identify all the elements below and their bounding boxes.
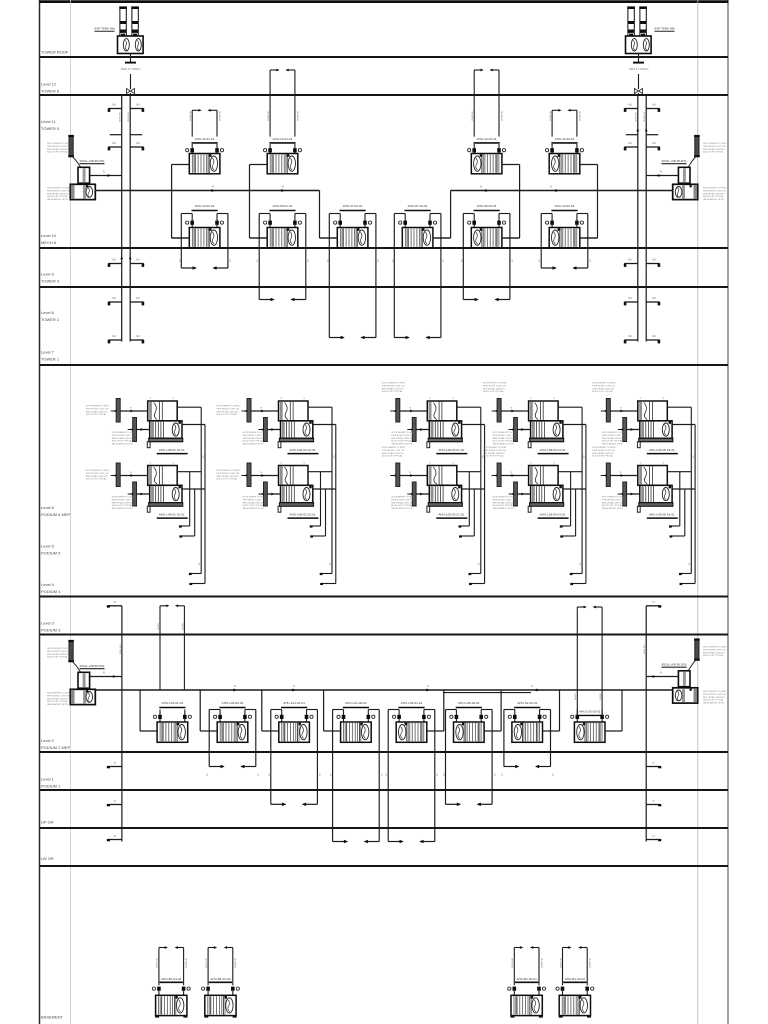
svg-text:N: N (103, 671, 105, 674)
svg-text:AHU-L06-02 01-01: AHU-L06-02 01-01 (290, 448, 316, 452)
svg-text:CHWS 40: CHWS 40 (550, 110, 552, 121)
svg-text:AHU-B1-02-02: AHU-B1-02-02 (565, 977, 586, 981)
svg-text:M-501 FOR TYPICAL: M-501 FOR TYPICAL (243, 440, 264, 443)
main CHW pipe level 10 left (95, 190, 319, 192)
svg-text:PODIUM 1: PODIUM 1 (41, 784, 61, 789)
svg-text:M-501 FOR TYPICAL: M-501 FOR TYPICAL (217, 413, 238, 416)
svg-text:TANK 4 T TANK 4: TANK 4 T TANK 4 (121, 68, 142, 71)
svg-text:N: N (212, 185, 214, 188)
svg-text:M-501 FOR TYPICAL: M-501 FOR TYPICAL (47, 195, 68, 198)
AHU-L05-05 01-01 (592, 447, 695, 518)
AHU-09-01-01 (250, 204, 311, 301)
svg-text:SEE DETAIL DWG NO: SEE DETAIL DWG NO (112, 501, 134, 504)
podium riser left (121, 606, 123, 842)
drawing frame border (39, 0, 41, 1024)
svg-text:SEE DETAIL DWG NO: SEE DETAIL DWG NO (602, 501, 624, 504)
svg-text:TANK 4 T TANK 4: TANK 4 T TANK 4 (629, 68, 650, 71)
AHU-12-01-01 (250, 69, 302, 238)
pump 2 (673, 184, 698, 199)
svg-text:PODIUM 5: PODIUM 5 (41, 551, 61, 556)
svg-text:M-501 FOR TYPICAL: M-501 FOR TYPICAL (112, 504, 133, 507)
svg-text:SEE DETAIL DWG NO: SEE DETAIL DWG NO (112, 437, 134, 440)
svg-text:PIPE WORK CONT ON: PIPE WORK CONT ON (391, 499, 414, 501)
svg-text:M-501 FOR TYPICAL: M-501 FOR TYPICAL (86, 413, 107, 416)
svg-text:PIPE WORK CONT ON: PIPE WORK CONT ON (112, 435, 135, 437)
svg-text:NOTE REFER TO SPEC: NOTE REFER TO SPEC (217, 406, 241, 408)
svg-text:NOTE REFER TO SPEC: NOTE REFER TO SPEC (483, 383, 507, 385)
svg-text:SEE DETAIL DWG NO: SEE DETAIL DWG NO (703, 696, 725, 699)
svg-text:TOWER 1: TOWER 1 (41, 357, 60, 362)
pump 1 (678, 671, 690, 687)
pump 1 (78, 167, 90, 183)
svg-text:PIPE WORK CONT ON: PIPE WORK CONT ON (391, 435, 414, 437)
svg-text:N: N (234, 685, 236, 688)
svg-text:AHU-11-02-01: AHU-11-02-01 (555, 137, 575, 141)
svg-text:M-501 FOR TYPICAL: M-501 FOR TYPICAL (483, 455, 504, 458)
svg-text:CHWS 40: CHWS 40 (157, 957, 159, 968)
AHU-10-01-01 (172, 204, 233, 270)
AHU-09-02-01 (461, 204, 519, 301)
svg-text:Level 2: Level 2 (41, 738, 55, 743)
svg-text:Level 3: Level 3 (41, 621, 55, 626)
AHU-L03-01-01 (140, 690, 191, 742)
level line Level 7 (40, 364, 729, 366)
svg-text:SEE DETAIL DWG NO: SEE DETAIL DWG NO (592, 452, 614, 455)
AHU-L05-03 01-01 (382, 447, 485, 518)
svg-text:Level 7: Level 7 (41, 350, 55, 355)
svg-text:M-501 FOR TYPICAL: M-501 FOR TYPICAL (703, 151, 724, 154)
svg-text:AHU-L06-01 01-01: AHU-L06-01 01-01 (159, 448, 185, 452)
svg-text:PIPE WORK CONT ON: PIPE WORK CONT ON (703, 649, 726, 651)
svg-text:PIPE WORK CONT ON: PIPE WORK CONT ON (592, 450, 615, 452)
cluster risers 1 (179, 407, 205, 585)
svg-text:PIPE WORK CONT ON: PIPE WORK CONT ON (47, 146, 70, 148)
svg-text:PIPE WORK CONT ON: PIPE WORK CONT ON (382, 385, 405, 387)
AHU-07-01-01 (320, 204, 381, 339)
svg-text:SEE DETAIL DWG NO: SEE DETAIL DWG NO (86, 475, 108, 478)
svg-text:CHWR 40: CHWR 40 (590, 957, 592, 968)
podium riser right (645, 606, 647, 842)
AHU-11-01-01 (172, 109, 224, 238)
pump 1 (678, 167, 690, 183)
AHU-L03-02-01 (200, 690, 260, 776)
column gridline B (697, 0, 699, 1024)
svg-text:AHU-L06-03 01-01: AHU-L06-03 01-01 (438, 448, 464, 452)
svg-text:AHU-L05-04 01-01: AHU-L05-04 01-01 (540, 513, 566, 517)
pump 2 (70, 689, 95, 704)
level line TOWER ROOF (40, 56, 729, 58)
AHU-L06-04 01-01 (483, 383, 586, 454)
svg-text:SEE DETAIL DWG NO: SEE DETAIL DWG NO (483, 387, 505, 390)
svg-text:CHWR 40: CHWR 40 (541, 957, 543, 968)
svg-text:AHU-L05-03 01-01: AHU-L05-03 01-01 (438, 513, 464, 517)
svg-text:VALVE ARRGT NOTE: VALVE ARRGT NOTE (602, 507, 624, 510)
cluster risers 4 (560, 407, 586, 585)
svg-text:AHU-L06-05 01-01: AHU-L06-05 01-01 (649, 448, 675, 452)
AHU-B1-01-02 (202, 946, 240, 1017)
svg-text:PIPE WORK CONT ON: PIPE WORK CONT ON (703, 694, 726, 696)
svg-text:AHU-12-02-01: AHU-12-02-01 (477, 137, 497, 141)
svg-text:AHU-12-01-01: AHU-12-01-01 (273, 137, 293, 141)
svg-text:VALVE ARRGT NOTE: VALVE ARRGT NOTE (112, 507, 134, 510)
level line Level 9 (40, 286, 729, 288)
svg-text:M-501 FOR TYPICAL: M-501 FOR TYPICAL (493, 504, 514, 507)
svg-text:AHU-10-02-01: AHU-10-02-01 (555, 204, 575, 208)
svg-text:CHWR 40: CHWR 40 (297, 110, 299, 121)
svg-text:Level 11: Level 11 (41, 119, 57, 124)
AHU-L06-05 01-01 (592, 383, 695, 454)
svg-text:NOTE REFER TO SPEC: NOTE REFER TO SPEC (47, 143, 71, 145)
svg-text:LW GR: LW GR (41, 856, 54, 861)
svg-text:PIPE WORK CONT ON: PIPE WORK CONT ON (217, 408, 240, 410)
svg-text:N: N (114, 835, 116, 838)
svg-text:SEE DETAIL DWG NO: SEE DETAIL DWG NO (391, 437, 413, 440)
svg-text:Level 9: Level 9 (41, 272, 55, 277)
svg-text:AHU-L05-01 01-01: AHU-L05-01 01-01 (159, 513, 185, 517)
svg-text:PIPE WORK CONT ON: PIPE WORK CONT ON (493, 435, 516, 437)
svg-text:CHWR 40: CHWR 40 (186, 957, 188, 968)
svg-text:M-501 FOR TYPICAL: M-501 FOR TYPICAL (243, 504, 264, 507)
feed risers left pair (158, 604, 185, 690)
svg-text:SEE DETAIL DWG NO: SEE DETAIL DWG NO (47, 192, 69, 195)
svg-text:N: N (114, 762, 116, 765)
svg-text:M-501 FOR TYPICAL: M-501 FOR TYPICAL (112, 440, 133, 443)
svg-text:M-501 FOR TYPICAL: M-501 FOR TYPICAL (382, 390, 403, 393)
svg-text:PIPE WORK CONT ON: PIPE WORK CONT ON (602, 499, 625, 501)
svg-text:NOTE REFER TO SPEC: NOTE REFER TO SPEC (493, 497, 517, 499)
svg-text:M-501 FOR TYPICAL: M-501 FOR TYPICAL (47, 656, 68, 659)
svg-text:M-501 FOR TYPICAL: M-501 FOR TYPICAL (47, 151, 68, 154)
svg-text:AHU-B1-01-02: AHU-B1-01-02 (210, 977, 231, 981)
svg-text:M-501 FOR TYPICAL: M-501 FOR TYPICAL (493, 440, 514, 443)
svg-text:VALVE ARRGT NOTE: VALVE ARRGT NOTE (493, 507, 515, 510)
svg-text:N: N (653, 762, 655, 765)
svg-text:AHU-B1-02-01: AHU-B1-02-01 (517, 977, 538, 981)
svg-text:BASEMENT: BASEMENT (41, 1015, 64, 1020)
svg-text:NOTE REFER TO SPEC: NOTE REFER TO SPEC (243, 432, 267, 434)
svg-text:M-501 FOR TYPICAL: M-501 FOR TYPICAL (703, 654, 724, 657)
svg-text:SEE DETAIL DWG NO: SEE DETAIL DWG NO (592, 387, 614, 390)
svg-text:CHWR: CHWR (182, 623, 184, 630)
AHU-L05-04 01-01 (483, 447, 586, 518)
svg-text:Level 1: Level 1 (41, 777, 55, 782)
main CHW pipe level 2 (95, 689, 672, 691)
svg-text:PIPE WORK CONT ON: PIPE WORK CONT ON (86, 473, 109, 475)
svg-text:CHWS 40: CHWS 40 (560, 957, 562, 968)
svg-text:(ROLL-AIR 90 D/S): (ROLL-AIR 90 D/S) (662, 663, 687, 667)
AHU-07-02-01 (392, 204, 450, 339)
svg-text:PIPE WORK CONT ON: PIPE WORK CONT ON (243, 435, 266, 437)
svg-text:CHWR 40: CHWR 40 (579, 110, 581, 121)
valve (638, 74, 640, 89)
svg-text:VALVE ARRGT NOTE: VALVE ARRGT NOTE (47, 198, 69, 201)
svg-text:SEE DETAIL DWG NO: SEE DETAIL DWG NO (703, 192, 725, 195)
AHU-B1-02-02 (556, 946, 594, 1017)
svg-text:Level 12: Level 12 (41, 82, 57, 87)
svg-text:PIPE WORK CONT ON: PIPE WORK CONT ON (86, 408, 109, 410)
svg-text:SEE DETAIL DWG NO: SEE DETAIL DWG NO (382, 452, 404, 455)
svg-text:CHW 100: CHW 100 (644, 644, 646, 654)
svg-text:AHU-07-02-01: AHU-07-02-01 (408, 204, 428, 208)
svg-text:VALVE ARRGT NOTE: VALVE ARRGT NOTE (493, 443, 515, 446)
svg-text:N: N (480, 185, 482, 188)
svg-text:NOTE REFER TO SPEC: NOTE REFER TO SPEC (112, 432, 136, 434)
main CHW pipe level 10 right (451, 190, 673, 192)
svg-text:SEE DETAIL DWG NO: SEE DETAIL DWG NO (602, 437, 624, 440)
svg-text:N: N (653, 800, 655, 803)
svg-text:NOTE REFER TO SPEC: NOTE REFER TO SPEC (602, 497, 626, 499)
air separator (695, 137, 699, 156)
svg-text:CHWS 40: CHWS 40 (206, 957, 208, 968)
svg-text:TOWER ROOF: TOWER ROOF (41, 50, 69, 55)
svg-text:N: N (660, 170, 662, 173)
svg-text:TOWER 6: TOWER 6 (41, 89, 60, 94)
expansion tank assembly (120, 7, 126, 36)
svg-text:PODIUM 4: PODIUM 4 (41, 589, 61, 594)
svg-text:VALVE ARRGT NOTE: VALVE ARRGT NOTE (47, 703, 69, 706)
air separator (69, 642, 73, 661)
AHU-L05-02-01 (444, 690, 502, 806)
level line LW GR (40, 865, 729, 867)
AHU-L06-01 01-01 (86, 398, 205, 454)
svg-text:VALVE ARRGT NOTE: VALVE ARRGT NOTE (243, 443, 265, 446)
svg-text:VALVE ARRGT NOTE: VALVE ARRGT NOTE (391, 507, 413, 510)
svg-text:PIPE WORK CONT ON: PIPE WORK CONT ON (483, 450, 506, 452)
svg-text:CHWS: CHWS (575, 693, 577, 700)
svg-text:N: N (653, 601, 655, 604)
svg-text:AHU-07-01-01: AHU-07-01-01 (343, 204, 363, 208)
column gridline A (70, 0, 72, 1024)
svg-text:AHU-L05-02 01-01: AHU-L05-02 01-01 (290, 513, 316, 517)
svg-text:M-501 FOR TYPICAL: M-501 FOR TYPICAL (602, 504, 623, 507)
svg-text:M-501 FOR TYPICAL: M-501 FOR TYPICAL (703, 195, 724, 198)
svg-text:CHWR 40: CHWR 40 (235, 957, 237, 968)
svg-text:AHU-L03-02-01: AHU-L03-02-01 (222, 701, 244, 705)
valve (130, 74, 132, 89)
svg-text:SEE DETAIL DWG NO: SEE DETAIL DWG NO (243, 437, 265, 440)
svg-text:PIPE WORK CONT ON: PIPE WORK CONT ON (602, 435, 625, 437)
pump 2 (70, 184, 95, 199)
svg-text:NOTE REFER TO SPEC: NOTE REFER TO SPEC (493, 432, 517, 434)
svg-text:N: N (660, 671, 662, 674)
svg-text:N: N (114, 800, 116, 803)
svg-text:Level 4: Level 4 (41, 582, 55, 587)
svg-text:PIPE WORK CONT ON: PIPE WORK CONT ON (703, 190, 726, 192)
svg-text:AHU-L05-02-01: AHU-L05-02-01 (458, 701, 480, 705)
svg-text:NOTE REFER TO SPEC: NOTE REFER TO SPEC (86, 470, 110, 472)
svg-text:M-501 FOR TYPICAL: M-501 FOR TYPICAL (391, 440, 412, 443)
svg-text:N: N (103, 170, 105, 173)
AHU-L06-02 01-01 (217, 398, 336, 454)
svg-text:AHU-09-02-01: AHU-09-02-01 (477, 204, 497, 208)
svg-text:M-501 FOR TYPICAL: M-501 FOR TYPICAL (592, 390, 613, 393)
AHU-10-02-01 (539, 204, 597, 270)
svg-text:NOTE REFER TO SPEC: NOTE REFER TO SPEC (391, 432, 415, 434)
svg-text:M-501 FOR TYPICAL: M-501 FOR TYPICAL (47, 700, 68, 703)
svg-text:SEE DETAIL DWG NO: SEE DETAIL DWG NO (703, 651, 725, 654)
svg-text:AHU-L01-01-01: AHU-L01-01-01 (283, 701, 305, 705)
svg-text:NOTE REFER TO SPEC: NOTE REFER TO SPEC (86, 406, 110, 408)
svg-text:AHU-09-01-01: AHU-09-01-01 (273, 204, 293, 208)
svg-text:VALVE ARRGT NOTE: VALVE ARRGT NOTE (703, 702, 725, 705)
svg-text:NOTE REFER TO SPEC: NOTE REFER TO SPEC (47, 188, 71, 190)
svg-text:Level 6: Level 6 (41, 505, 55, 510)
svg-text:AHU-L03-01-01: AHU-L03-01-01 (162, 701, 184, 705)
svg-text:AHU-01-02-01: AHU-01-02-01 (517, 701, 537, 705)
feed risers right pair (575, 606, 602, 715)
svg-text:M-501 FOR TYPICAL: M-501 FOR TYPICAL (391, 504, 412, 507)
svg-text:NOTE REFER TO SPEC: NOTE REFER TO SPEC (592, 447, 616, 449)
svg-text:SEE DETAIL DWG NO: SEE DETAIL DWG NO (47, 697, 69, 700)
pipe pump to riser (90, 175, 122, 177)
AHU-L01-02-01 (324, 690, 384, 843)
svg-text:AHU-L05-05 01-01: AHU-L05-05 01-01 (649, 513, 675, 517)
svg-text:N: N (531, 685, 533, 688)
air separator (695, 640, 699, 659)
CHW riser pair right (637, 95, 639, 342)
AHU-L05-01 01-01 (86, 462, 205, 518)
svg-text:Level 5: Level 5 (41, 544, 55, 549)
svg-text:Level 10: Level 10 (41, 233, 57, 238)
cluster risers 2 (310, 407, 336, 585)
level line Level 2 (40, 751, 729, 753)
svg-text:AHU-L03-03-01: AHU-L03-03-01 (579, 710, 601, 714)
svg-text:PIPE WORK CONT ON: PIPE WORK CONT ON (47, 190, 70, 192)
svg-text:NOTE REFER TO SPEC: NOTE REFER TO SPEC (703, 143, 727, 145)
svg-text:CHWS 40: CHWS 40 (268, 110, 270, 121)
pipe from tank to riser (130, 54, 132, 63)
svg-text:SEE DETAIL DWG NO: SEE DETAIL DWG NO (243, 501, 265, 504)
AHU-L06-03 01-01 (382, 383, 485, 454)
svg-text:VALVE ARRGT NOTE: VALVE ARRGT NOTE (112, 443, 134, 446)
svg-text:N: N (293, 685, 295, 688)
svg-text:AHU-L01-02-01: AHU-L01-02-01 (345, 701, 367, 705)
level line Level 3 (40, 634, 729, 636)
svg-text:PIPE WORK CONT ON: PIPE WORK CONT ON (47, 695, 70, 697)
svg-text:VALVE ARRGT NOTE: VALVE ARRGT NOTE (703, 198, 725, 201)
pump 2 (673, 688, 698, 703)
svg-text:PIPE WORK CONT ON: PIPE WORK CONT ON (243, 499, 266, 501)
svg-text:PIPE WORK CONT ON: PIPE WORK CONT ON (493, 499, 516, 501)
svg-text:(ROLL-AIR 90 D/S): (ROLL-AIR 90 D/S) (80, 159, 105, 163)
svg-text:NOTE REFER TO SPEC: NOTE REFER TO SPEC (483, 447, 507, 449)
AHU-L03-03-01 (571, 690, 622, 742)
CHW riser pair left (121, 95, 123, 342)
svg-text:M-501 FOR TYPICAL: M-501 FOR TYPICAL (217, 478, 238, 481)
svg-text:SEE DETAIL DWG NO: SEE DETAIL DWG NO (217, 410, 239, 413)
svg-text:CHWR 80: CHWR 80 (644, 111, 646, 122)
svg-text:CHWR 40: CHWR 40 (501, 110, 503, 121)
svg-text:VALVE ARRGT NOTE: VALVE ARRGT NOTE (602, 443, 624, 446)
level line Level 10 (40, 247, 729, 249)
svg-text:M-501 FOR TYPICAL: M-501 FOR TYPICAL (703, 699, 724, 702)
svg-text:PIPE WORK CONT ON: PIPE WORK CONT ON (47, 651, 70, 653)
svg-text:CHWS 40: CHWS 40 (472, 110, 474, 121)
svg-text:CHWS 80: CHWS 80 (120, 111, 122, 122)
svg-text:AHU-10-01-01: AHU-10-01-01 (195, 204, 215, 208)
svg-text:SEE DETAIL DWG NO: SEE DETAIL DWG NO (47, 148, 69, 151)
svg-text:N: N (427, 685, 429, 688)
svg-text:AHU-B1-01-01: AHU-B1-01-01 (161, 977, 182, 981)
cluster risers 3 (459, 407, 485, 585)
svg-text:AHU-11-01-01: AHU-11-01-01 (195, 137, 215, 141)
svg-text:SEE DETAIL DWG NO: SEE DETAIL DWG NO (382, 387, 404, 390)
expansion tank assembly (628, 7, 634, 36)
svg-text:SEE DETAIL DWG NO: SEE DETAIL DWG NO (493, 501, 515, 504)
svg-text:NOTE REFER TO SPEC: NOTE REFER TO SPEC (243, 497, 267, 499)
svg-text:SEE DETAIL DWG NO: SEE DETAIL DWG NO (86, 410, 108, 413)
svg-text:SEE DETAIL DWG NO: SEE DETAIL DWG NO (217, 475, 239, 478)
riser takeoff elbows (108, 108, 122, 110)
svg-text:TOWER 3: TOWER 3 (41, 279, 60, 284)
AHU-L05-01-01 (386, 690, 444, 843)
svg-text:NOTE REFER TO SPEC: NOTE REFER TO SPEC (217, 470, 241, 472)
cluster risers 5 (669, 407, 695, 585)
AHU-L01-01-01 (262, 690, 322, 806)
svg-text:M-501 FOR TYPICAL: M-501 FOR TYPICAL (602, 440, 623, 443)
level line Level 12 (40, 94, 729, 96)
AHU-B1-02-01 (508, 946, 546, 1017)
svg-text:NOTE REFER TO SPEC: NOTE REFER TO SPEC (703, 691, 727, 693)
svg-text:NOTE REFER TO SPEC: NOTE REFER TO SPEC (382, 447, 406, 449)
svg-text:CHW 100: CHW 100 (120, 644, 122, 654)
svg-text:NOTE REFER TO SPEC: NOTE REFER TO SPEC (47, 648, 71, 650)
svg-text:M-501 FOR TYPICAL: M-501 FOR TYPICAL (483, 390, 504, 393)
svg-text:TOWER 2: TOWER 2 (41, 317, 60, 322)
svg-text:PIPE WORK CONT ON: PIPE WORK CONT ON (382, 450, 405, 452)
svg-text:MECH 6: MECH 6 (41, 240, 57, 245)
air separator (69, 137, 73, 156)
svg-text:PIPE WORK CONT ON: PIPE WORK CONT ON (217, 473, 240, 475)
level line Level 1 (40, 789, 729, 791)
svg-text:Level 8: Level 8 (41, 310, 55, 315)
svg-text:AHU-L05-01-01: AHU-L05-01-01 (401, 701, 423, 705)
svg-text:PIPE WORK CONT ON: PIPE WORK CONT ON (592, 385, 615, 387)
svg-text:SEE DETAIL DWG NO: SEE DETAIL DWG NO (483, 452, 505, 455)
svg-text:N: N (114, 601, 116, 604)
svg-text:SEE DETAIL DWG NO: SEE DETAIL DWG NO (493, 437, 515, 440)
svg-text:N: N (282, 185, 284, 188)
svg-text:N: N (550, 185, 552, 188)
AHU-11-02-01 (546, 109, 598, 238)
svg-text:M-501 FOR TYPICAL: M-501 FOR TYPICAL (86, 478, 107, 481)
svg-text:NOTE REFER TO SPEC: NOTE REFER TO SPEC (703, 647, 727, 649)
svg-text:NOTE REFER TO SPEC: NOTE REFER TO SPEC (592, 383, 616, 385)
svg-text:(ROLL-AIR 90 D/S): (ROLL-AIR 90 D/S) (662, 159, 687, 163)
svg-text:EXP TANK 04b: EXP TANK 04b (655, 27, 676, 31)
svg-text:CHWS 40: CHWS 40 (512, 957, 514, 968)
svg-text:CHWR: CHWR (600, 693, 602, 700)
svg-text:UP GR: UP GR (41, 820, 54, 825)
AHU-12-02-01 (468, 69, 520, 238)
svg-text:PODIUM 6 MEP: PODIUM 6 MEP (41, 512, 70, 517)
svg-text:PIPE WORK CONT ON: PIPE WORK CONT ON (483, 385, 506, 387)
svg-text:SEE DETAIL DWG NO: SEE DETAIL DWG NO (703, 148, 725, 151)
svg-text:CHWS: CHWS (158, 623, 160, 630)
level line UP GR (40, 827, 729, 829)
svg-text:PIPE WORK CONT ON: PIPE WORK CONT ON (112, 499, 135, 501)
pipe from tank to riser (638, 54, 640, 63)
svg-text:NOTE REFER TO SPEC: NOTE REFER TO SPEC (382, 383, 406, 385)
svg-text:PIPE WORK CONT ON: PIPE WORK CONT ON (703, 146, 726, 148)
svg-text:VALVE ARRGT NOTE: VALVE ARRGT NOTE (243, 507, 265, 510)
svg-text:PODIUM 2 MEP: PODIUM 2 MEP (41, 745, 70, 750)
svg-text:CHWS 40: CHWS 40 (190, 110, 192, 121)
svg-text:NOTE REFER TO SPEC: NOTE REFER TO SPEC (703, 188, 727, 190)
svg-text:PODIUM 3: PODIUM 3 (41, 628, 61, 633)
svg-text:SEE DETAIL DWG NO: SEE DETAIL DWG NO (47, 653, 69, 656)
AHU-L05-02 01-01 (217, 462, 336, 518)
